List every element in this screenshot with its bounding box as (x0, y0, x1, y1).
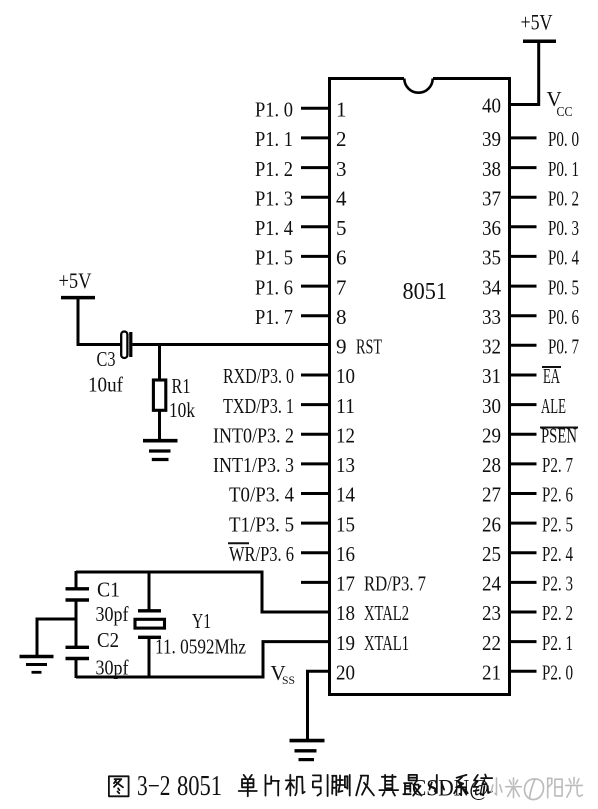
svg-text:P0. 5: P0. 5 (548, 275, 579, 299)
svg-text:2: 2 (336, 127, 347, 151)
pin 16 WR/P3.6 (228, 542, 355, 566)
svg-text:+5V: +5V (59, 268, 92, 293)
svg-text:10k: 10k (169, 398, 195, 422)
svg-text:32: 32 (482, 335, 501, 359)
+5V supply (top right) (521, 10, 557, 42)
svg-text:35: 35 (482, 246, 501, 270)
svg-text:RST: RST (356, 335, 382, 359)
svg-text:22: 22 (482, 631, 501, 655)
wire XTAL2 top (crystal to pin 18) (76, 572, 330, 612)
pin 28 P2.7 (482, 453, 573, 477)
crystal Y1 11.0592Mhz (135, 609, 246, 659)
svg-text:RXD/P3. 0: RXD/P3. 0 (223, 364, 294, 388)
svg-text:30pf: 30pf (96, 602, 129, 626)
pin 9 RST (336, 335, 382, 359)
node VSS label (271, 661, 296, 687)
svg-text:P0. 6: P0. 6 (548, 305, 579, 329)
pin 1 P1.0 (255, 98, 347, 122)
svg-text:P2. 4: P2. 4 (542, 542, 573, 566)
caption: 图 3-2 8051 单片机引脚及其最小系统 (109, 771, 492, 802)
svg-text:P0. 4: P0. 4 (548, 246, 579, 270)
pin 10 RXD/P3.0 (223, 364, 355, 388)
ground (VSS) (290, 741, 325, 760)
svg-text:14: 14 (336, 483, 355, 507)
svg-text:P2. 6: P2. 6 (542, 483, 573, 507)
svg-text:WR/P3. 6: WR/P3. 6 (229, 542, 294, 566)
svg-text:+5V: +5V (521, 10, 553, 35)
svg-text:37: 37 (482, 186, 501, 210)
svg-text:P0. 1: P0. 1 (548, 157, 579, 181)
+5V supply (left) (59, 268, 96, 298)
pin 29 PSEN (482, 423, 578, 447)
svg-text:34: 34 (482, 275, 501, 299)
svg-text:28: 28 (482, 453, 501, 477)
svg-text:CC: CC (557, 105, 573, 120)
pin 8 P1.7 (255, 305, 347, 329)
pin 38 P0.1 (482, 157, 579, 181)
resistor R1 10k (153, 374, 195, 422)
svg-text:23: 23 (482, 601, 501, 625)
pin 13 INT1/P3.3 (213, 453, 355, 477)
svg-text:P1. 7: P1. 7 (255, 305, 293, 329)
pin 20 VSS number (336, 661, 355, 685)
svg-text:T1/P3. 5: T1/P3. 5 (229, 512, 294, 536)
svg-text:8051: 8051 (403, 279, 448, 305)
svg-text:12: 12 (336, 423, 355, 447)
svg-text:P1. 0: P1. 0 (255, 98, 293, 122)
svg-text:C1: C1 (97, 578, 120, 602)
pin 2 P1.1 (255, 127, 347, 151)
pin 19 XTAL1 (336, 631, 409, 655)
wire +5V to pin 40 (510, 41, 539, 104)
wire C3 to RST pin 9 (132, 343, 329, 346)
svg-text:R1: R1 (172, 374, 191, 398)
pin 40 VCC (482, 87, 573, 120)
pin 5 P1.4 (255, 216, 347, 240)
pin 37 P0.2 (482, 186, 579, 210)
svg-text:XTAL1: XTAL1 (364, 631, 409, 655)
capacitor C3 10uf (88, 332, 131, 397)
pin 36 P0.3 (482, 216, 579, 240)
svg-text:31: 31 (482, 364, 501, 388)
pin 35 P0.4 (482, 246, 579, 270)
wire +5V down (77, 298, 80, 346)
svg-text:20: 20 (336, 661, 355, 685)
pin 6 P1.5 (255, 246, 347, 270)
svg-text:P2. 5: P2. 5 (542, 512, 573, 536)
svg-text:C2: C2 (97, 628, 119, 652)
svg-text:P2. 1: P2. 1 (542, 631, 573, 655)
pin 22 P2.1 (482, 631, 573, 655)
pin 15 T1/P3.5 (229, 512, 355, 536)
svg-text:XTAL2: XTAL2 (364, 601, 409, 625)
svg-text:3: 3 (336, 157, 347, 181)
svg-text:P1. 5: P1. 5 (255, 246, 293, 270)
svg-text:5: 5 (336, 216, 347, 240)
svg-text:10: 10 (336, 364, 355, 388)
pin 25 P2.4 (482, 542, 573, 566)
svg-text:9: 9 (336, 335, 347, 359)
svg-text:30pf: 30pf (96, 656, 129, 680)
svg-text:CSDN@: CSDN@ (412, 776, 489, 801)
pin 34 P0.5 (482, 275, 579, 299)
svg-text:39: 39 (482, 127, 501, 151)
svg-text:27: 27 (482, 483, 501, 507)
svg-text:11. 0592Mhz: 11. 0592Mhz (155, 635, 246, 659)
svg-text:7: 7 (336, 275, 347, 299)
svg-text:13: 13 (336, 453, 355, 477)
wire pin 20 to ground (308, 671, 330, 739)
svg-text:21: 21 (482, 661, 501, 685)
8051 MCU U1 body (330, 79, 510, 695)
svg-text:1: 1 (336, 98, 347, 122)
svg-text:P2. 0: P2. 0 (542, 661, 573, 685)
svg-text:33: 33 (482, 305, 501, 329)
svg-text:SS: SS (282, 673, 295, 687)
pin 14 T0/P3.4 (229, 483, 355, 507)
pin 24 P2.3 (482, 572, 573, 596)
svg-text:24: 24 (482, 572, 501, 596)
svg-text:25: 25 (482, 542, 501, 566)
svg-text:8: 8 (336, 305, 347, 329)
wire caps to ground (37, 619, 76, 656)
capacitor C1 30pf (66, 578, 129, 627)
ground (below R1) (143, 441, 178, 460)
svg-text:ALE: ALE (541, 394, 566, 418)
svg-text:11: 11 (336, 394, 355, 418)
svg-text:3−2: 3−2 (137, 771, 171, 802)
svg-text:T0/P3. 4: T0/P3. 4 (229, 483, 294, 507)
svg-text:P1. 4: P1. 4 (255, 216, 293, 240)
svg-text:17: 17 (336, 572, 355, 596)
svg-text:P0. 3: P0. 3 (548, 216, 579, 240)
svg-text:8051: 8051 (177, 771, 222, 802)
pin 30 ALE (482, 394, 566, 418)
svg-text:19: 19 (336, 631, 355, 655)
svg-text:P1. 6: P1. 6 (255, 275, 293, 299)
svg-text:P0. 0: P0. 0 (548, 127, 579, 151)
svg-text:P2. 7: P2. 7 (542, 453, 573, 477)
svg-text:Y1: Y1 (192, 609, 211, 633)
pin 3 P1.2 (255, 157, 347, 181)
svg-text:29: 29 (482, 423, 501, 447)
pin 12 INT0/P3.2 (213, 423, 355, 447)
svg-text:P1. 2: P1. 2 (255, 157, 293, 181)
svg-text:15: 15 (336, 512, 355, 536)
svg-text:36: 36 (482, 216, 501, 240)
pin 21 P2.0 (482, 661, 573, 685)
wire junction to R1 (158, 345, 161, 381)
wire crystal vertical (148, 571, 151, 678)
svg-text:4: 4 (336, 186, 347, 210)
svg-text:C3: C3 (97, 347, 116, 371)
capacitor C2 30pf (66, 628, 129, 680)
wire left cap branch (75, 571, 78, 678)
ground (left of caps) (20, 657, 54, 673)
svg-text:10uf: 10uf (88, 373, 123, 397)
svg-text:P1. 3: P1. 3 (255, 186, 293, 210)
wire XTAL1 bottom (crystal to pin 19) (76, 642, 330, 677)
pin 11 TXD/P3.1 (223, 394, 355, 418)
svg-text:16: 16 (336, 542, 355, 566)
pin 17 RD/P3.7 (301, 572, 426, 596)
watermark CSDN@小米の阳光 (412, 776, 582, 801)
wire R1 to ground (158, 409, 161, 441)
svg-text:INT1/P3. 3: INT1/P3. 3 (213, 453, 294, 477)
pin 18 XTAL2 (336, 601, 409, 625)
svg-text:38: 38 (482, 157, 501, 181)
wire to C3 (77, 343, 122, 346)
svg-text:P0. 2: P0. 2 (548, 186, 579, 210)
pin 39 P0.0 (482, 127, 579, 151)
svg-text:26: 26 (482, 512, 501, 536)
pin 4 P1.3 (255, 186, 347, 210)
svg-text:P2. 3: P2. 3 (542, 572, 573, 596)
pin 23 P2.2 (482, 601, 573, 625)
pin 31 EA (482, 364, 561, 388)
svg-text:18: 18 (336, 601, 355, 625)
svg-text:6: 6 (336, 246, 347, 270)
pin 32 P0.7 (482, 335, 579, 359)
pin 26 P2.5 (482, 512, 573, 536)
svg-text:40: 40 (482, 94, 501, 118)
pin 33 P0.6 (482, 305, 579, 329)
svg-text:TXD/P3. 1: TXD/P3. 1 (223, 394, 294, 418)
svg-text:P1. 1: P1. 1 (255, 127, 293, 151)
pin 7 P1.6 (255, 275, 347, 299)
svg-text:P0. 7: P0. 7 (548, 335, 579, 359)
svg-text:RD/P3. 7: RD/P3. 7 (364, 572, 426, 596)
svg-text:30: 30 (482, 394, 501, 418)
pin 27 P2.6 (482, 483, 573, 507)
svg-text:P2. 2: P2. 2 (542, 601, 573, 625)
svg-text:INT0/P3. 2: INT0/P3. 2 (213, 423, 294, 447)
